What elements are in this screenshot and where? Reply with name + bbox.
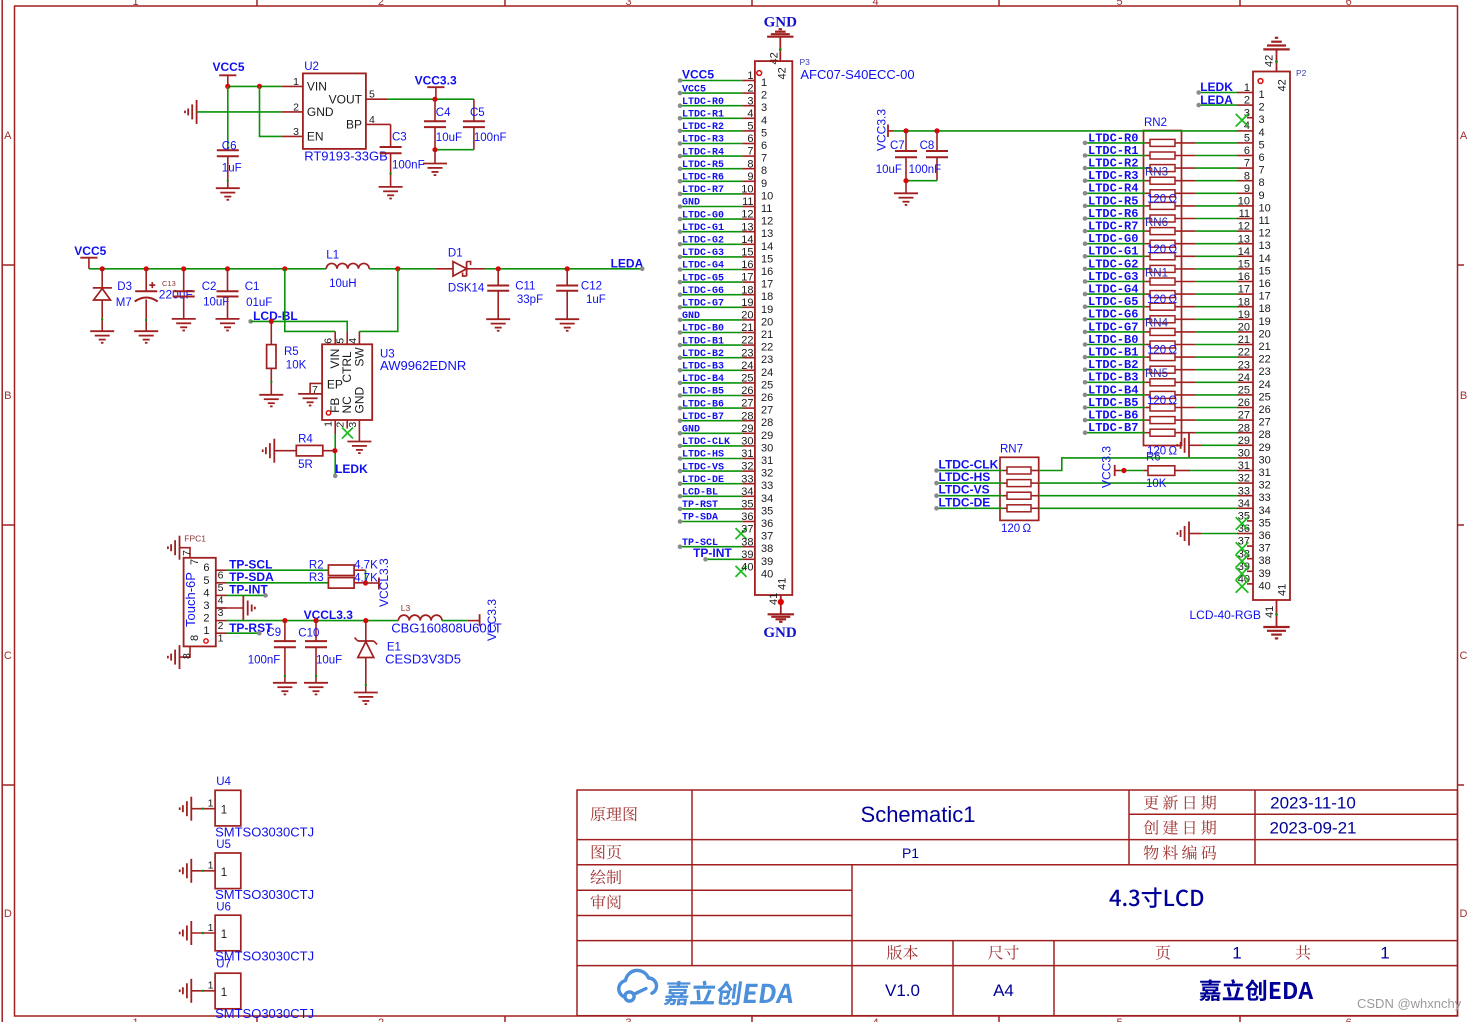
ground (C12) xyxy=(555,319,579,331)
svg-text:19: 19 xyxy=(761,304,773,316)
svg-text:7: 7 xyxy=(181,550,193,556)
svg-text:1uF: 1uF xyxy=(586,294,606,306)
svg-text:21: 21 xyxy=(1259,341,1271,353)
ground (P2 pin29) xyxy=(1177,433,1189,457)
svg-text:VCC3.3: VCC3.3 xyxy=(485,599,499,641)
svg-text:18: 18 xyxy=(1259,303,1271,315)
svg-text:VIN: VIN xyxy=(307,80,327,94)
svg-text:SW: SW xyxy=(352,347,366,367)
svg-text:40: 40 xyxy=(741,562,753,574)
svg-text:5: 5 xyxy=(1116,0,1122,8)
svg-text:1: 1 xyxy=(132,1017,138,1022)
svg-text:RN1: RN1 xyxy=(1145,267,1168,279)
svg-text:24: 24 xyxy=(761,367,773,379)
svg-text:41: 41 xyxy=(768,593,780,605)
svg-text:4: 4 xyxy=(203,587,209,599)
svg-text:LEDK: LEDK xyxy=(335,462,368,476)
svg-text:37: 37 xyxy=(1259,543,1271,555)
svg-text:R2: R2 xyxy=(309,559,324,571)
svg-text:DSK14: DSK14 xyxy=(448,283,485,295)
svg-text:LTDC-DE: LTDC-DE xyxy=(939,495,991,509)
wire VIN from rail xyxy=(285,269,335,332)
transistor U3 AW9962EDNR body xyxy=(322,344,372,420)
capacitor C11 33pF xyxy=(496,266,501,271)
svg-text:26: 26 xyxy=(1259,404,1271,416)
svg-text:3: 3 xyxy=(761,102,767,114)
resistor R4 5R xyxy=(274,450,296,452)
mounting hole U7 SMTSO3030CTJ xyxy=(215,973,241,1009)
diode D1 DSK14 schottky xyxy=(435,268,453,270)
resistor R6 10K to P2 pin31 xyxy=(1120,470,1144,472)
node junction C7 xyxy=(903,128,908,133)
mounting hole U5 SMTSO3030CTJ xyxy=(215,853,241,889)
svg-text:RN2: RN2 xyxy=(1144,117,1167,129)
svg-text:R3: R3 xyxy=(309,572,324,584)
svg-text:GND: GND xyxy=(763,625,797,641)
FPC1 pin 8 bottom xyxy=(180,646,191,657)
U3 GND pin xyxy=(358,420,360,442)
svg-text:1: 1 xyxy=(208,980,214,992)
svg-text:CSDN @whxnchy: CSDN @whxnchy xyxy=(1357,996,1462,1011)
resistor R3 4.7K xyxy=(328,578,354,589)
svg-text:25: 25 xyxy=(741,373,753,385)
svg-text:AW9962EDNR: AW9962EDNR xyxy=(380,358,466,373)
svg-text:C13: C13 xyxy=(162,279,176,288)
resistor R5 10K xyxy=(270,321,272,344)
svg-text:32: 32 xyxy=(761,468,773,480)
svg-text:P3: P3 xyxy=(800,57,811,67)
svg-text:1: 1 xyxy=(218,632,224,644)
svg-text:33: 33 xyxy=(1259,492,1271,504)
ground (EP) xyxy=(298,394,322,406)
svg-text:6: 6 xyxy=(203,562,209,574)
U3 NC pin no-connect xyxy=(346,420,348,429)
svg-text:9: 9 xyxy=(747,171,753,183)
svg-text:12: 12 xyxy=(761,216,773,228)
svg-text:6: 6 xyxy=(1346,0,1352,8)
svg-text:17: 17 xyxy=(741,272,753,284)
svg-text:10uF: 10uF xyxy=(436,132,462,144)
svg-text:3: 3 xyxy=(293,126,299,138)
mounting hole U4 SMTSO3030CTJ xyxy=(215,790,241,826)
svg-text:10K: 10K xyxy=(286,359,307,371)
svg-text:1: 1 xyxy=(132,0,138,8)
svg-text:36: 36 xyxy=(741,511,753,523)
ground (C3) xyxy=(379,187,403,199)
wire VCC5 to U2 VIN xyxy=(228,85,282,87)
wire RN7 VS to P2 pin33 xyxy=(1039,495,1237,497)
svg-text:34: 34 xyxy=(761,493,773,505)
ground (U4) xyxy=(180,797,192,821)
svg-text:14: 14 xyxy=(741,234,753,246)
svg-text:M7: M7 xyxy=(116,297,132,309)
net VCCL3.3 wire xyxy=(227,620,399,622)
ground (U6) xyxy=(180,921,192,945)
svg-text:19: 19 xyxy=(741,297,753,309)
svg-text:C11: C11 xyxy=(515,280,535,292)
svg-text:U6: U6 xyxy=(216,902,231,914)
svg-text:25: 25 xyxy=(761,379,773,391)
svg-text:RN4: RN4 xyxy=(1145,318,1169,330)
svg-text:EP: EP xyxy=(327,378,343,392)
svg-text:1: 1 xyxy=(208,798,214,810)
svg-text:5: 5 xyxy=(203,575,209,587)
wire R2 to R3 junction xyxy=(365,570,367,583)
svg-text:1: 1 xyxy=(221,805,227,817)
svg-text:A4: A4 xyxy=(993,981,1014,1000)
svg-text:7: 7 xyxy=(761,153,767,165)
P2 pin 40 no-connect xyxy=(1236,580,1249,593)
power flag GND (P2 top) xyxy=(1263,48,1289,50)
ground (D3) xyxy=(90,331,114,343)
svg-text:2: 2 xyxy=(1259,102,1265,114)
svg-text:C8: C8 xyxy=(920,140,935,152)
svg-text:17: 17 xyxy=(761,279,773,291)
node junction C7/C8 ground xyxy=(903,178,908,183)
svg-text:1: 1 xyxy=(221,929,227,941)
svg-text:3: 3 xyxy=(625,0,631,8)
svg-text:120 Ω: 120 Ω xyxy=(1147,193,1177,205)
svg-text:7: 7 xyxy=(747,146,753,158)
svg-text:31: 31 xyxy=(741,448,753,460)
svg-text:TP-INT: TP-INT xyxy=(693,546,732,560)
ground (C1) xyxy=(216,319,240,331)
svg-text:39: 39 xyxy=(1259,568,1271,580)
svg-text:38: 38 xyxy=(1259,555,1271,567)
svg-text:19: 19 xyxy=(1259,316,1271,328)
svg-text:8: 8 xyxy=(189,635,201,641)
svg-text:30: 30 xyxy=(1259,454,1271,466)
mounting hole U6 SMTSO3030CTJ xyxy=(215,915,241,951)
resistor network RN2 body xyxy=(1144,131,1182,446)
svg-text:U2: U2 xyxy=(304,61,319,73)
svg-text:A: A xyxy=(4,130,12,142)
wire L3 to VCC3.3 xyxy=(442,620,468,622)
svg-text:13: 13 xyxy=(1259,240,1271,252)
svg-text:39: 39 xyxy=(761,556,773,568)
ground (C4/C5) xyxy=(434,150,436,164)
svg-text:40: 40 xyxy=(1259,580,1271,592)
svg-text:C9: C9 xyxy=(266,627,281,639)
svg-text:SMTSO3030CTJ: SMTSO3030CTJ xyxy=(215,825,314,840)
ground (C10) xyxy=(304,683,328,695)
svg-text:4: 4 xyxy=(761,115,767,127)
P2 pin 37 no-connect xyxy=(1236,542,1249,555)
svg-text:D: D xyxy=(4,908,12,920)
svg-text:37: 37 xyxy=(741,524,753,536)
svg-text:C7: C7 xyxy=(890,140,905,152)
node junction E1 xyxy=(363,618,368,623)
diode E1 CESD3V3D5 TVS xyxy=(365,621,367,641)
ground (U2 GND pin) xyxy=(185,100,197,124)
svg-text:120 Ω: 120 Ω xyxy=(1147,244,1177,256)
svg-text:42: 42 xyxy=(768,52,780,64)
svg-text:18: 18 xyxy=(741,284,753,296)
svg-text:6: 6 xyxy=(747,133,753,145)
svg-text:15: 15 xyxy=(741,247,753,259)
svg-text:29: 29 xyxy=(1259,442,1271,454)
svg-text:BP: BP xyxy=(346,118,362,132)
svg-text:20: 20 xyxy=(761,316,773,328)
svg-text:RN3: RN3 xyxy=(1145,167,1168,179)
svg-text:14: 14 xyxy=(1259,253,1271,265)
capacitor C9 100nF xyxy=(284,621,286,642)
svg-text:4: 4 xyxy=(218,595,224,607)
node junction rail/SW xyxy=(395,266,400,271)
connector FPC1 Touch-6P body xyxy=(184,558,216,647)
wire LCD-BL to CTRL xyxy=(251,321,348,331)
svg-text:RT9193-33GB: RT9193-33GB xyxy=(304,148,388,163)
svg-text:29: 29 xyxy=(761,430,773,442)
connector P3 AFC07-S40ECC-00 body xyxy=(755,61,792,595)
svg-text:VOUT: VOUT xyxy=(329,92,363,106)
svg-text:C: C xyxy=(4,650,12,662)
svg-text:9: 9 xyxy=(761,178,767,190)
svg-text:5: 5 xyxy=(218,582,224,594)
svg-text:1uF: 1uF xyxy=(222,163,242,175)
svg-text:39: 39 xyxy=(741,549,753,561)
power flag VCC3.3 (touch) xyxy=(468,620,480,622)
U3 EP pin 7 xyxy=(310,383,322,394)
svg-text:2: 2 xyxy=(293,101,299,113)
svg-text:23: 23 xyxy=(1259,366,1271,378)
svg-text:1: 1 xyxy=(1232,944,1241,963)
svg-text:15: 15 xyxy=(761,253,773,265)
capacitor C8 100nF xyxy=(936,131,938,151)
svg-text:1: 1 xyxy=(761,77,767,89)
svg-text:C5: C5 xyxy=(470,107,485,119)
svg-text:P1: P1 xyxy=(902,845,919,861)
ground (P2 bottom) xyxy=(1263,626,1289,628)
logo JLC EDA xyxy=(619,970,657,1001)
P2 pin35 no-connect xyxy=(1236,517,1249,530)
svg-text:2: 2 xyxy=(203,613,209,625)
wire GND to U2 pin2 xyxy=(197,111,282,113)
svg-text:SMTSO3030CTJ: SMTSO3030CTJ xyxy=(215,887,314,902)
svg-text:11: 11 xyxy=(1259,215,1270,227)
svg-text:3: 3 xyxy=(218,607,224,619)
svg-text:120 Ω: 120 Ω xyxy=(1147,294,1177,306)
svg-text:220uF: 220uF xyxy=(159,288,193,302)
svg-text:6: 6 xyxy=(1259,152,1265,164)
U3 FB pin marker xyxy=(326,411,330,415)
svg-text:27: 27 xyxy=(1259,417,1271,429)
capacitor C1 01uF xyxy=(225,266,230,271)
svg-text:8: 8 xyxy=(761,165,767,177)
P3 pin 40 no-connect xyxy=(736,566,747,577)
svg-text:32: 32 xyxy=(741,461,753,473)
svg-text:EN: EN xyxy=(307,130,324,144)
svg-text:21: 21 xyxy=(761,329,773,341)
ground (C13) xyxy=(134,331,158,343)
svg-text:L1: L1 xyxy=(326,250,339,262)
svg-text:FPC1: FPC1 xyxy=(184,534,206,544)
capacitor C13 220uF electrolytic xyxy=(144,266,149,271)
svg-text:28: 28 xyxy=(1259,429,1271,441)
svg-text:20: 20 xyxy=(741,310,753,322)
svg-text:CESD3V3D5: CESD3V3D5 xyxy=(385,652,461,667)
svg-text:41: 41 xyxy=(1277,584,1289,596)
svg-text:U4: U4 xyxy=(216,776,231,788)
svg-text:23: 23 xyxy=(741,347,753,359)
capacitor C2 10uF xyxy=(181,266,186,271)
svg-text:C4: C4 xyxy=(436,107,451,119)
capacitor C5 xyxy=(473,99,475,121)
svg-text:10uF: 10uF xyxy=(203,296,229,308)
ground (U7) xyxy=(180,979,192,1003)
svg-text:D3: D3 xyxy=(117,281,132,293)
svg-text:6: 6 xyxy=(1346,1017,1352,1022)
inductor L1 10uH xyxy=(282,266,287,271)
capacitor C12 1uF xyxy=(565,266,570,271)
svg-text:14: 14 xyxy=(761,241,773,253)
svg-text:2: 2 xyxy=(218,620,224,632)
svg-text:5: 5 xyxy=(747,121,753,133)
P2 pin3 no-connect xyxy=(1236,114,1249,127)
ground (U3 GND) xyxy=(347,442,371,454)
svg-text:1: 1 xyxy=(293,76,299,88)
wire SW from rail xyxy=(359,269,397,332)
svg-text:4: 4 xyxy=(347,338,359,344)
svg-text:1: 1 xyxy=(323,421,335,427)
svg-text:VCCL3.3: VCCL3.3 xyxy=(377,558,391,607)
svg-text:5: 5 xyxy=(1259,139,1265,151)
svg-text:22: 22 xyxy=(741,335,753,347)
svg-text:13: 13 xyxy=(741,221,753,233)
P3 pin 41 bottom xyxy=(780,595,782,614)
svg-text:20: 20 xyxy=(1259,328,1271,340)
svg-text:120 Ω: 120 Ω xyxy=(1001,523,1031,535)
svg-text:1: 1 xyxy=(208,860,214,872)
svg-text:01uF: 01uF xyxy=(246,297,272,309)
svg-text:16: 16 xyxy=(761,266,773,278)
svg-text:7: 7 xyxy=(189,559,201,565)
svg-text:10uF: 10uF xyxy=(876,164,902,176)
svg-text:C: C xyxy=(1460,650,1467,662)
svg-text:100nF: 100nF xyxy=(909,164,942,176)
svg-text:RN6: RN6 xyxy=(1145,217,1168,229)
svg-text:2: 2 xyxy=(761,90,767,102)
svg-text:100nF: 100nF xyxy=(392,159,425,171)
svg-text:35: 35 xyxy=(761,505,773,517)
wire EN loop xyxy=(260,86,282,136)
P2 pin 39 no-connect xyxy=(1236,568,1249,581)
ground (C2) xyxy=(172,319,196,331)
U3 FB wire to LEDK xyxy=(334,420,336,434)
svg-text:LEDA: LEDA xyxy=(611,256,644,270)
svg-text:1: 1 xyxy=(203,625,209,637)
svg-text:6: 6 xyxy=(323,338,335,344)
ground (P2 pin36) xyxy=(1177,522,1189,546)
svg-text:2: 2 xyxy=(378,1017,384,1022)
svg-text:10: 10 xyxy=(761,190,773,202)
svg-text:2023-11-10: 2023-11-10 xyxy=(1270,794,1356,813)
wire C8 to C7 ground xyxy=(906,180,937,182)
capacitor C7 10uF xyxy=(905,131,907,151)
wire VCC3.3 rail to P2 pin4 xyxy=(894,130,1238,132)
svg-text:R5: R5 xyxy=(284,346,299,358)
svg-text:3: 3 xyxy=(1259,114,1265,126)
svg-text:U7: U7 xyxy=(216,959,231,971)
svg-text:30: 30 xyxy=(761,442,773,454)
ground (C7/C8) xyxy=(894,193,918,205)
connector P2 LCD-40-RGB body xyxy=(1253,72,1290,601)
svg-text:AFC07-S40ECC-00: AFC07-S40ECC-00 xyxy=(800,67,914,82)
svg-text:15: 15 xyxy=(1259,265,1271,277)
svg-text:4: 4 xyxy=(872,0,878,8)
svg-text:12: 12 xyxy=(741,209,753,221)
svg-text:3: 3 xyxy=(747,95,753,107)
capacitor C10 10uF xyxy=(315,621,317,642)
svg-text:38: 38 xyxy=(761,543,773,555)
capacitor C4 xyxy=(434,99,436,121)
svg-text:24: 24 xyxy=(741,360,753,372)
svg-text:VCC5: VCC5 xyxy=(74,244,106,258)
node junction R2/R3 pullup xyxy=(363,580,368,585)
ground (P3 bottom) xyxy=(768,613,794,615)
svg-text:33: 33 xyxy=(761,480,773,492)
svg-text:SMTSO3030CTJ: SMTSO3030CTJ xyxy=(215,1006,314,1021)
svg-text:B: B xyxy=(1460,390,1467,402)
power flag VCCL3.3 (pullups) xyxy=(366,582,379,584)
svg-text:10uH: 10uH xyxy=(329,278,357,290)
svg-text:1: 1 xyxy=(208,922,214,934)
svg-text:16: 16 xyxy=(1259,278,1271,290)
wire VCC5 rail left of L1 xyxy=(89,268,326,270)
svg-text:29: 29 xyxy=(741,423,753,435)
svg-text:13: 13 xyxy=(761,228,773,240)
svg-text:30: 30 xyxy=(741,436,753,448)
svg-text:36: 36 xyxy=(761,518,773,530)
svg-text:22: 22 xyxy=(1259,354,1271,366)
svg-text:VCC5: VCC5 xyxy=(213,60,245,74)
svg-text:4: 4 xyxy=(872,1017,878,1022)
resistor network RN7 body xyxy=(1000,457,1039,520)
svg-text:42: 42 xyxy=(1277,79,1289,91)
svg-text:16: 16 xyxy=(741,259,753,271)
svg-text:C12: C12 xyxy=(581,280,602,292)
svg-text:27: 27 xyxy=(761,405,773,417)
svg-text:35: 35 xyxy=(741,499,753,511)
svg-text:35: 35 xyxy=(1259,517,1271,529)
P3 pin 37 no-connect xyxy=(736,528,747,539)
wire RN7 DE to P2 pin34 xyxy=(1039,507,1237,509)
ground (C6) xyxy=(216,188,240,200)
svg-text:33: 33 xyxy=(741,473,753,485)
svg-text:40: 40 xyxy=(761,568,773,580)
svg-text:26: 26 xyxy=(741,385,753,397)
svg-text:Touch-6P: Touch-6P xyxy=(183,572,198,627)
ground (C9) xyxy=(273,683,297,695)
svg-text:31: 31 xyxy=(761,455,773,467)
wire C4/C5 bottoms xyxy=(435,149,474,151)
node junction LCD-BL/R5 xyxy=(269,319,274,324)
svg-text:1: 1 xyxy=(221,987,227,999)
FPC1 pin 7 top xyxy=(180,548,191,558)
svg-text:10: 10 xyxy=(1259,202,1271,214)
node junction C9 xyxy=(282,618,287,623)
svg-text:2: 2 xyxy=(335,422,347,428)
resistor R2 4.7K xyxy=(328,565,354,576)
svg-text:23: 23 xyxy=(761,354,773,366)
svg-text:LCD-40-RGB: LCD-40-RGB xyxy=(1190,608,1261,622)
ground (C11) xyxy=(486,319,510,331)
svg-text:100nF: 100nF xyxy=(248,654,281,666)
svg-text:25: 25 xyxy=(1259,391,1271,403)
svg-text:120 Ω: 120 Ω xyxy=(1147,345,1177,357)
diode D3 M7 xyxy=(100,266,105,271)
svg-text:34: 34 xyxy=(1259,505,1271,517)
